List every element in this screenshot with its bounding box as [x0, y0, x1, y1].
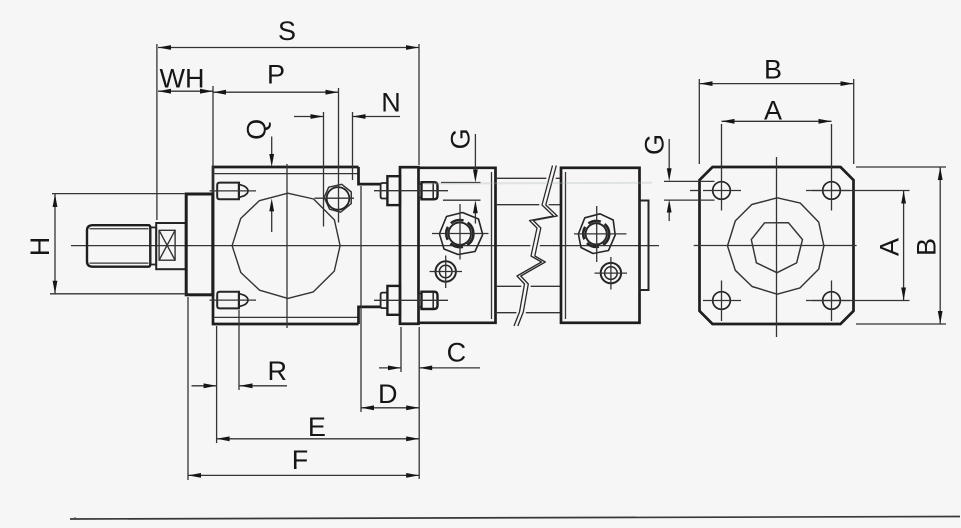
dimension N [294, 88, 401, 119]
head block right step top [359, 167, 381, 184]
dimension B top [700, 55, 854, 86]
dimension F [188, 445, 419, 478]
cylinder tube inner top line [496, 204, 562, 206]
drain hole right crosshair [595, 257, 628, 290]
dimension G left [445, 128, 477, 223]
dimension P [213, 60, 339, 95]
cap boss [640, 201, 649, 291]
cylinder tube bottom line [496, 312, 562, 314]
dimension D extension line left [360, 186, 362, 412]
dimension WH [158, 64, 213, 94]
dimension E [217, 412, 420, 442]
tie-rod stud bottom-right [419, 292, 438, 309]
dimension B right extension lines [856, 167, 946, 324]
dimension H extension lines [50, 194, 186, 294]
cushion plug top [217, 183, 248, 200]
bolt hole bottom-right [812, 281, 850, 322]
square flange plate [700, 167, 854, 324]
svg-text:WH: WH [160, 64, 205, 94]
head bore vertical centerline [286, 164, 288, 328]
dimension G right [640, 134, 672, 221]
dimension F extension line left [187, 297, 189, 480]
dimension B top extension lines [699, 79, 853, 164]
dimension A top [722, 96, 832, 126]
flange bore inner polygon [751, 223, 802, 273]
svg-text:P: P [267, 60, 285, 90]
svg-text:E: E [308, 412, 326, 442]
port hex left [439, 213, 482, 255]
dimension R extension line right [238, 310, 240, 390]
dimension B right [912, 167, 943, 324]
drain hole left [436, 261, 456, 281]
cushion valve horizontal centerline [315, 197, 355, 199]
svg-text:A: A [875, 238, 905, 256]
rod neck [150, 227, 156, 264]
tie-rod top centerline [374, 190, 448, 192]
square flange horizontal centerline [694, 245, 857, 247]
break line (long-break zigzag) [514, 166, 557, 327]
wrench flat X-box [159, 230, 175, 260]
cylinder tube inner bottom line [496, 285, 562, 287]
main axis centerline [71, 245, 659, 247]
svg-text:R: R [268, 356, 288, 386]
dimension C [379, 337, 480, 370]
svg-text:Q: Q [241, 119, 271, 140]
cushion plug bottom [217, 292, 248, 309]
svg-text:N: N [381, 88, 401, 118]
shared right extension line (C D E F) [418, 327, 420, 479]
dimension A top extension lines [722, 124, 832, 170]
cap-side port block [561, 168, 640, 323]
drain hole right [601, 263, 621, 283]
tie-rod nut plate-left top [387, 176, 400, 205]
tie-rod nut plate-left bottom [387, 286, 400, 315]
port hex left crosshair [432, 204, 489, 260]
bottom rule line [70, 517, 960, 520]
cushion plug top centerline [210, 190, 257, 192]
dimension A right [875, 191, 906, 301]
rod head block [213, 167, 359, 324]
port hex right crosshair [574, 206, 627, 262]
svg-text:S: S [278, 16, 296, 46]
svg-text:B: B [764, 55, 782, 85]
dimension C extension line left [400, 327, 402, 372]
rod-side port block [419, 168, 496, 323]
dimension G right tangent lines [664, 181, 715, 200]
svg-text:B: B [912, 238, 942, 256]
svg-text:H: H [25, 237, 55, 257]
bolt hole top-right [812, 170, 850, 211]
tie-rod washer bottom-left [381, 293, 388, 309]
dimension WH/P shared extension line [212, 86, 214, 193]
dimension H [25, 194, 57, 294]
cushion plug bottom centerline [210, 299, 257, 301]
dimension A right extension lines [806, 191, 910, 301]
svg-text:A: A [764, 96, 782, 126]
tie-rod washer top-left [381, 183, 388, 199]
head bore circle (polygon) [232, 193, 340, 298]
square flange vertical centerline [776, 157, 778, 337]
dimension S extension lines [157, 44, 419, 220]
tie-rod stud top-right [419, 182, 438, 199]
dimension D [361, 379, 419, 410]
svg-text:G: G [640, 134, 670, 155]
dimension S [158, 16, 419, 50]
rod wrench-flat block [156, 223, 186, 269]
tie-rod bottom centerline [374, 299, 448, 301]
cushion valve hex boss [324, 184, 351, 212]
svg-text:D: D [378, 379, 398, 409]
mounting flange plate (edge view) [400, 167, 419, 324]
dimension P right extension / valve centerline [338, 88, 340, 223]
svg-text:F: F [292, 445, 309, 475]
dimension N extension lines [324, 112, 353, 227]
drain hole left crosshair [430, 256, 463, 289]
svg-text:C: C [447, 337, 467, 367]
head block right step bottom [359, 307, 381, 324]
rod-end collar flange (edge view) [186, 194, 213, 295]
piston rod thread [87, 225, 150, 267]
svg-text:G: G [445, 128, 475, 149]
port hex right [578, 214, 615, 254]
dimension G left tangent lines [441, 183, 481, 201]
cylinder tube top line [496, 177, 562, 179]
dimension R [192, 356, 288, 388]
dimension E extension line left [216, 326, 218, 443]
scanner streak (faint artifact) [424, 182, 652, 185]
dimension Q [241, 119, 274, 232]
flange bore outer circle (polygon) [728, 198, 824, 294]
bolt hole bottom-left [703, 281, 741, 322]
bolt hole top-left [690, 170, 741, 211]
